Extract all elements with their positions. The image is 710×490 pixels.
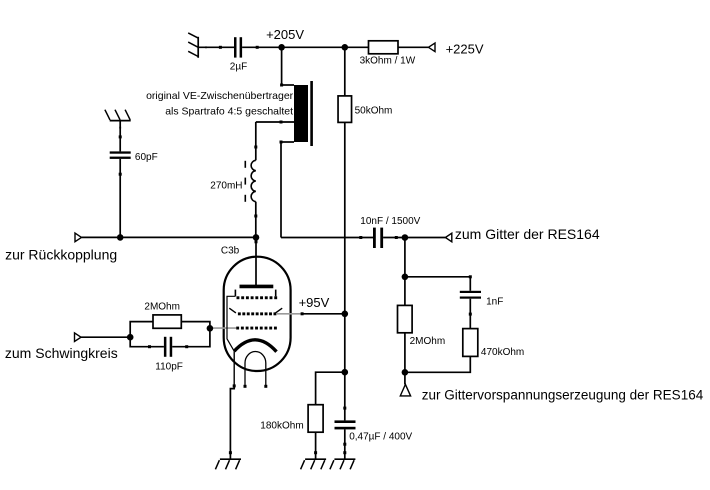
- svg-text:3kOhm / 1W: 3kOhm / 1W: [360, 55, 416, 66]
- wire middle tap to inductor line: [256, 121, 294, 123]
- svg-text:270mH: 270mH: [210, 181, 242, 192]
- wire 2uF to 3kOhm resistor (+205V rail): [242, 46, 368, 48]
- pin square at cathode ground: [229, 451, 232, 454]
- svg-text:zur Rückkopplung: zur Rückkopplung: [5, 247, 117, 263]
- pin square 110pF left: [148, 345, 151, 348]
- pin square 1nF bottom: [469, 313, 472, 316]
- wire bottom tap: [281, 141, 294, 143]
- node RC left: [127, 334, 134, 341]
- pin square tube anode: [255, 240, 258, 243]
- terminal zum Gitter der RES164: [445, 233, 451, 242]
- tube grid2 dotted row: [238, 312, 277, 315]
- svg-text:zum Schwingkreis: zum Schwingkreis: [5, 345, 118, 361]
- pin square transformer middle tap: [280, 121, 283, 124]
- pin square C 2uF left: [219, 46, 222, 49]
- node 1nF branch: [402, 274, 409, 281]
- svg-text:original VE-Zwischenübertrager: original VE-Zwischenübertrager: [146, 90, 294, 102]
- ground (at 60pF top): [105, 110, 131, 121]
- capacitor C 60pF: [110, 151, 131, 159]
- resistor R 2MOhm (grid leak): [153, 315, 181, 328]
- pin square at 180kOhm ground: [314, 451, 317, 454]
- svg-text:C3b: C3b: [221, 246, 240, 257]
- wire RC left node up to 2MOhm: [130, 322, 153, 338]
- wire zum Schwingkreis to RC node: [81, 336, 130, 338]
- wire ground to C 2uF: [198, 46, 234, 48]
- node +95V: [342, 311, 349, 318]
- terminal zur Gittervorspannungserzeugung: [400, 384, 410, 396]
- pin square 10nF right: [395, 236, 398, 239]
- pin square 110pF right: [185, 345, 188, 348]
- capacitor C 10nF/1500V: [373, 228, 383, 248]
- capacitor C 1nF: [460, 291, 481, 299]
- tube grid1 dotted row: [236, 327, 277, 330]
- svg-text:110pF: 110pF: [155, 362, 183, 373]
- wire 110pF right to grid node: [172, 328, 210, 346]
- pin square 10nF left: [359, 236, 362, 239]
- tube cathode lead down: [233, 351, 235, 386]
- tube grid2 end angle marks: [229, 308, 282, 313]
- resistor R 2MOhm (bias divider): [398, 305, 413, 332]
- wire junction to 0.47uF: [344, 372, 346, 420]
- wire 180kOhm to ground: [315, 432, 317, 459]
- wire 50kOhm down to +95V node (crosses grid wire): [344, 122, 346, 313]
- wire 1nF bottom to 470kOhm: [469, 299, 471, 329]
- capacitor C 110pF: [164, 337, 172, 357]
- svg-text:470kOhm: 470kOhm: [481, 347, 524, 358]
- wire anode node down into tube (anode lead): [255, 237, 257, 285]
- wire 2MOhm bottom to bottom node: [404, 333, 406, 373]
- wire RC left node down to 110pF: [130, 337, 164, 347]
- terminal zur Rueckkopplung: [75, 233, 82, 242]
- resistor R 180kOhm: [308, 405, 323, 433]
- tube cathode arc: [234, 340, 276, 352]
- transformer T1 winding (VE-Zwischenuebertrager): [294, 85, 308, 142]
- node 10nF output: [402, 234, 409, 241]
- tube grid3 end ticks: [235, 290, 275, 297]
- wire branch node to 1nF: [405, 276, 470, 278]
- pin square inductor top: [254, 146, 257, 149]
- pin tick ground: [205, 46, 207, 48]
- wire +205V node down to transformer top tap: [281, 47, 283, 85]
- ground (top left, at 2uF): [188, 33, 198, 58]
- pin square transformer top tap: [280, 84, 283, 87]
- wire inductor bottom lead: [255, 202, 257, 238]
- inductor core dashes: [244, 161, 246, 202]
- resistor R 470kOhm: [463, 329, 478, 357]
- node at 50kOhm branch: [342, 44, 349, 51]
- svg-text:2MOhm: 2MOhm: [410, 336, 446, 347]
- wire node to 50kOhm: [344, 47, 346, 96]
- terminal +225V: [428, 43, 435, 52]
- wire cathode to ground: [230, 386, 234, 459]
- transformer T1 core bar: [310, 81, 313, 146]
- tube V1 C3b envelope: [224, 257, 291, 371]
- ground (cathode): [215, 459, 241, 469]
- pin square tube heater left: [244, 385, 247, 388]
- svg-text:+225V: +225V: [446, 42, 484, 57]
- tube grid3 internal lead to cathode: [227, 296, 235, 351]
- wire 1nF top lead: [469, 277, 471, 291]
- wire 10nF to zum Gitter terminal: [383, 237, 445, 239]
- tube anode plate bar: [240, 285, 274, 289]
- resistor R 3kOhm/1W: [369, 41, 399, 54]
- ground (180kOhm): [301, 459, 327, 469]
- inductor L 270mH: [251, 160, 256, 201]
- wire zur Rueckkopplung to anode node: [82, 236, 257, 238]
- svg-text:50kOhm: 50kOhm: [355, 106, 393, 117]
- wire +95V node down to 0.47uF node: [344, 314, 346, 372]
- wire inductor top lead: [255, 122, 257, 160]
- wire ground to 60pF: [119, 121, 121, 152]
- node anode junction: [253, 234, 260, 241]
- wire 2MOhm right to grid node: [181, 322, 210, 329]
- capacitor 2uF: [234, 37, 242, 57]
- wire bottom node to bias terminal: [404, 372, 406, 384]
- svg-text:10nF / 1500V: 10nF / 1500V: [360, 216, 420, 227]
- svg-text:zur Gittervorspannungserzeugun: zur Gittervorspannungserzeugung der RES1…: [422, 388, 704, 403]
- node +205V: [278, 44, 285, 51]
- node bias bottom: [402, 369, 409, 376]
- pin square C 2uF right: [256, 46, 259, 49]
- svg-text:+95V: +95V: [299, 295, 330, 310]
- svg-text:2MOhm: 2MOhm: [144, 302, 180, 313]
- tube grid3 dotted row: [237, 296, 278, 299]
- pin tick ground 60pF: [119, 127, 121, 129]
- svg-text:zum Gitter der RES164: zum Gitter der RES164: [455, 226, 600, 242]
- svg-text:180kOhm: 180kOhm: [260, 421, 303, 432]
- capacitor C 0.47uF/400V: [335, 420, 356, 429]
- node 0.47uF / 180kOhm junction: [342, 369, 349, 376]
- pin square transformer bottom tap: [280, 141, 283, 144]
- wire output node down to 1nF branch node: [404, 238, 406, 277]
- wire transformer bottom tap down: [280, 142, 282, 238]
- node grid junction: [207, 325, 214, 332]
- tube grid2 lead (grey): [277, 313, 302, 315]
- pin square tube cathode: [233, 384, 236, 387]
- pin square 60pF top: [119, 135, 122, 138]
- wire grid2 pin to +95V node: [302, 313, 345, 315]
- svg-text:1nF: 1nF: [486, 297, 503, 308]
- pin square inductor bottom: [254, 215, 257, 218]
- wire junction left to 180kOhm: [316, 372, 345, 405]
- wire transformer tap line to 10nF (grid output net): [281, 237, 373, 239]
- pin square at 0.47uF ground: [343, 451, 346, 454]
- wire 60pF down to Rueckkopplung line: [119, 159, 121, 238]
- wire 470kOhm to bottom node: [405, 356, 470, 372]
- node 60pF junction: [117, 234, 124, 241]
- svg-text:als Spartrafo 4:5 geschaltet: als Spartrafo 4:5 geschaltet: [165, 106, 293, 118]
- pin square tube heater right: [264, 385, 267, 388]
- svg-text:2µF: 2µF: [230, 61, 247, 72]
- tube heater arc: [245, 352, 266, 387]
- svg-text:0,47µF / 400V: 0,47µF / 400V: [349, 432, 412, 443]
- pin square 1nF top: [469, 275, 472, 278]
- wire top tap: [282, 84, 294, 86]
- wire 0.47uF to ground: [344, 429, 346, 459]
- svg-text:60pF: 60pF: [135, 152, 158, 163]
- wire branch node to 2MOhm top: [404, 277, 406, 306]
- resistor R 50kOhm: [338, 96, 352, 123]
- pin square tube grid2: [301, 312, 304, 315]
- pin square 0.47uF top: [343, 407, 346, 410]
- tube grid1 lead (grey): [212, 327, 236, 329]
- pin square 60pF bottom: [119, 173, 122, 176]
- pin square 0.47uF bottom: [343, 443, 346, 446]
- ground (0.47uF): [330, 459, 356, 469]
- terminal zum Schwingkreis: [75, 333, 82, 342]
- wire 3kOhm to +225V terminal: [398, 46, 428, 48]
- svg-text:+205V: +205V: [266, 27, 304, 42]
